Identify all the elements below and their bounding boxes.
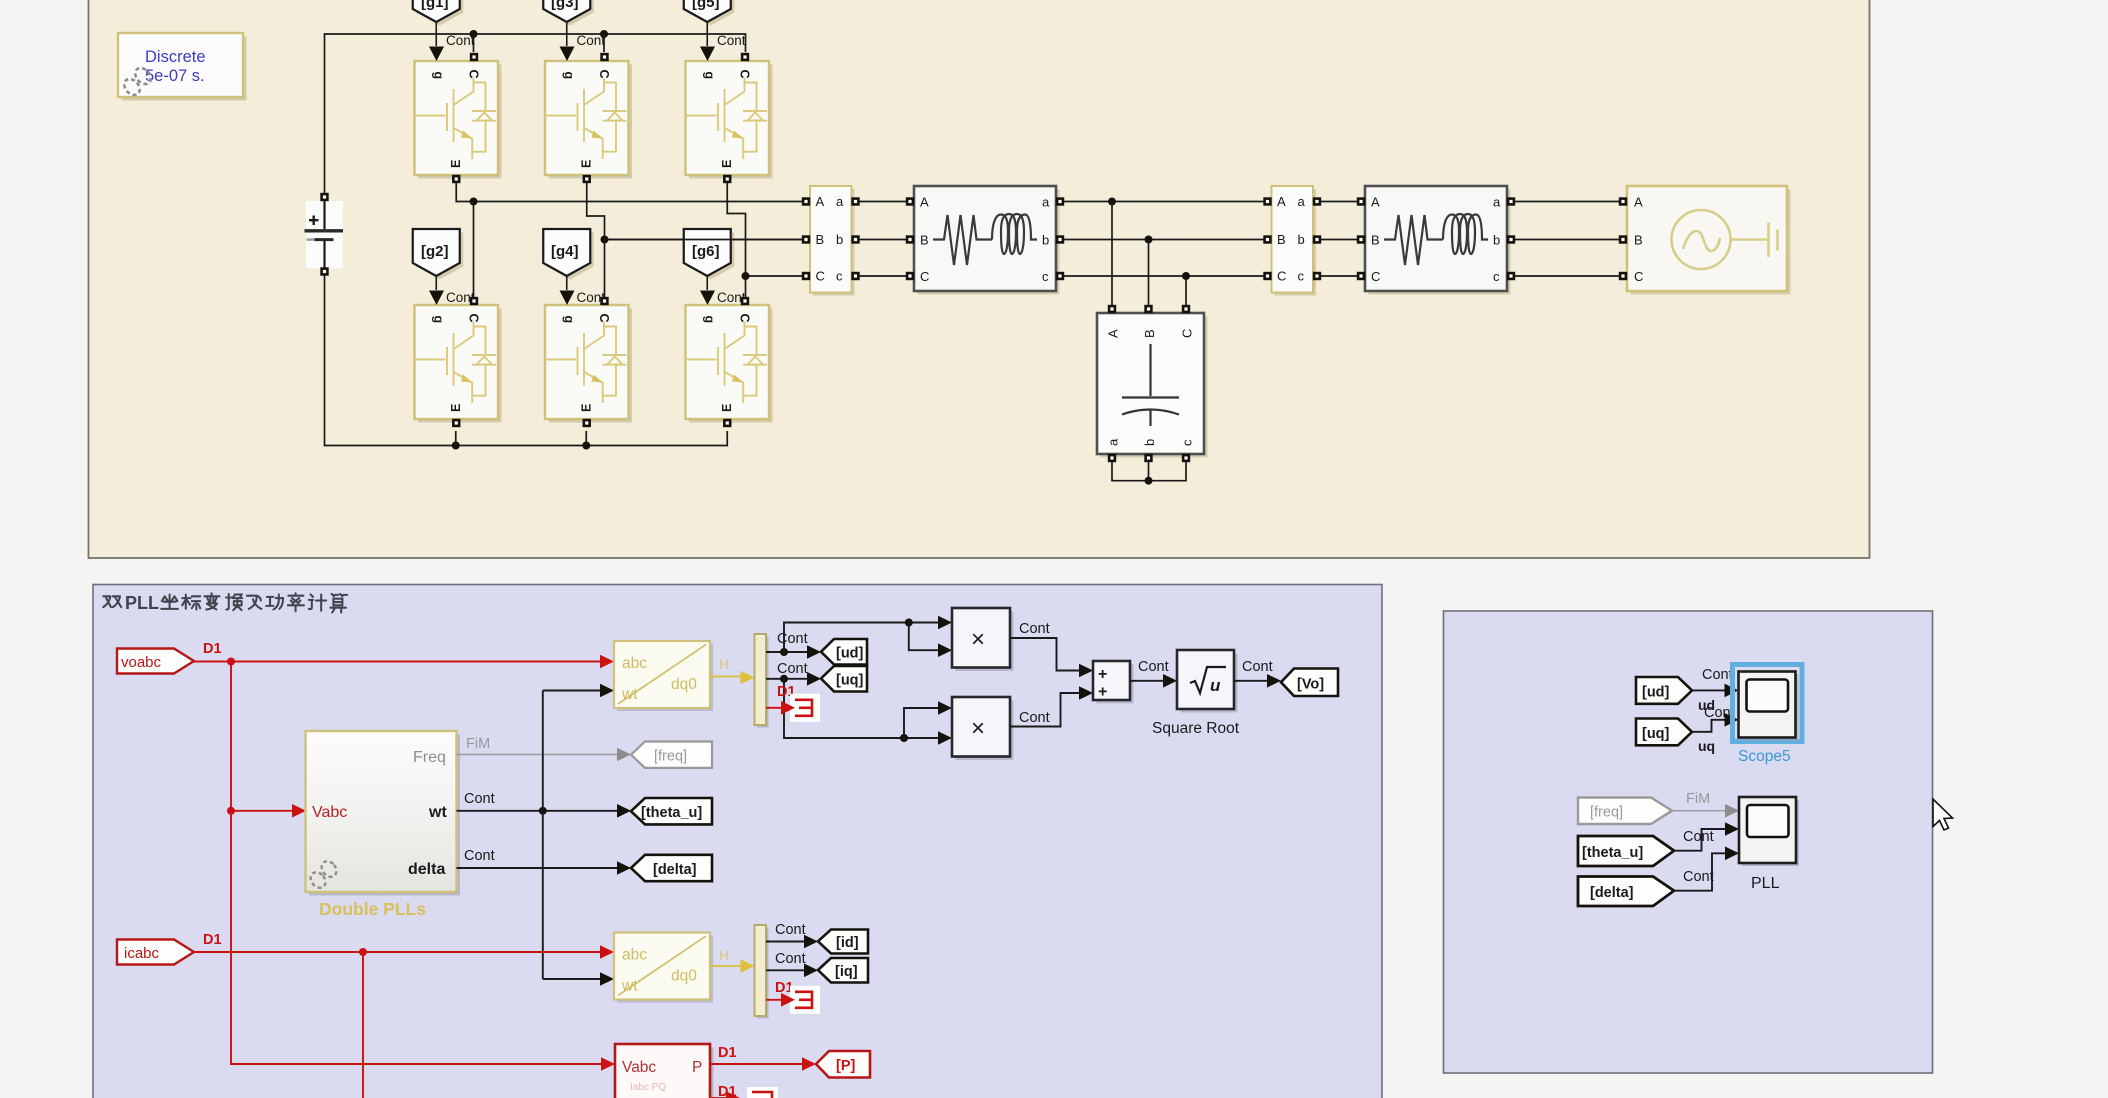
svg-text:[uq]: [uq]	[836, 673, 864, 689]
svg-text:Scope5: Scope5	[1738, 748, 1791, 765]
svg-text:×: ×	[971, 715, 985, 742]
svg-text:[delta]: [delta]	[653, 862, 697, 878]
svg-text:Cont: Cont	[577, 33, 606, 48]
wire ud to multiplier (square)	[784, 623, 939, 653]
node Vabc branch	[227, 807, 235, 815]
svg-text:[ud]: [ud]	[836, 646, 864, 662]
svg-text:Double PLLs: Double PLLs	[319, 899, 426, 919]
svg-text:c: c	[1180, 439, 1195, 446]
wire H2 to demux2	[710, 965, 741, 967]
phase B jog wire from Q3 E	[587, 183, 810, 297]
wire adder to sqrt	[1130, 680, 1164, 682]
RL branch 1	[906, 186, 1064, 295]
goto tag [P]	[816, 1051, 870, 1078]
wire mult1 to adder	[1010, 638, 1080, 671]
svg-text:[freq]: [freq]	[654, 749, 687, 765]
multiplier 2	[952, 697, 1014, 760]
svg-text:[P]: [P]	[836, 1058, 856, 1074]
measurement block 2 (Aa Bb Cc)	[1263, 186, 1321, 296]
From tag icabc	[117, 940, 194, 965]
svg-text:Cont: Cont	[464, 791, 495, 807]
wire uq out	[766, 678, 808, 680]
wire delta to PLL	[1674, 853, 1725, 890]
goto tag [id]	[818, 930, 868, 954]
wire icabc down	[362, 952, 364, 1098]
From tag [theta_u]	[1578, 836, 1674, 866]
node cap neutral	[1145, 477, 1153, 485]
svg-text:Vabc: Vabc	[622, 1059, 656, 1076]
PLL scope block	[1739, 797, 1799, 866]
wire delta to [delta]	[457, 867, 618, 869]
svg-text:[delta]: [delta]	[1590, 885, 1634, 901]
svg-text:Freq: Freq	[413, 749, 446, 766]
wire P out to [P]	[710, 1063, 803, 1065]
powergui Discrete block	[118, 33, 247, 101]
three-phase capacitor bank block	[1097, 305, 1208, 462]
率	[288, 593, 304, 611]
From tag [freq] (scopes)	[1578, 798, 1672, 825]
svg-text:Cont: Cont	[446, 33, 475, 48]
wire id out	[766, 941, 804, 943]
坐	[161, 595, 178, 609]
phase C jog wire from Q5 E	[727, 183, 810, 297]
svg-text:Cont: Cont	[1138, 659, 1169, 675]
svg-text:H: H	[719, 948, 729, 963]
svg-text:[iq]: [iq]	[835, 964, 858, 980]
svg-text:[g2]: [g2]	[421, 243, 449, 260]
及	[247, 596, 261, 609]
Square Root block	[1177, 650, 1238, 713]
svg-text:Vabc: Vabc	[312, 804, 347, 821]
goto tag [iq]	[818, 958, 868, 983]
wire phase B over g6 tag	[605, 239, 811, 241]
IGBT Q1	[415, 47, 502, 184]
svg-text:uq: uq	[1698, 738, 1715, 754]
node cap tap A	[1108, 198, 1116, 206]
wire: C-port drops from top rail	[474, 34, 605, 52]
svg-text:Discrete: Discrete	[145, 48, 206, 66]
From tag [uq]	[1636, 719, 1692, 746]
IGBT Q5	[686, 47, 773, 184]
wire voabc red into abc1 arrow	[600, 655, 614, 669]
wire uq to multiplier 2	[784, 679, 939, 738]
svg-text:[ud]: [ud]	[1642, 685, 1670, 701]
svg-text:A: A	[1634, 195, 1643, 210]
demux 1	[755, 634, 769, 728]
svg-text:PLL: PLL	[125, 593, 159, 613]
demux 2	[755, 925, 769, 1019]
svg-text:[id]: [id]	[836, 935, 859, 951]
wire voabc down branch	[231, 662, 601, 1065]
svg-text:b: b	[1142, 439, 1157, 446]
svg-text:Cont: Cont	[1683, 829, 1714, 845]
svg-text:Cont: Cont	[777, 661, 808, 677]
wire red stub Q (cut)	[710, 1097, 726, 1098]
wire iq out	[766, 969, 804, 971]
svg-text:A: A	[1106, 329, 1121, 338]
计	[309, 595, 326, 611]
IGBT Q4	[545, 291, 632, 428]
换	[226, 594, 242, 610]
node icabc branch	[359, 948, 367, 956]
node: bottom rail junction E of Q4	[582, 442, 590, 450]
wire phase A drop to Q2 C	[473, 202, 475, 298]
measurement block 1 (Aa Bb Cc)	[802, 186, 860, 296]
mouse cursor	[1933, 799, 1953, 830]
双	[103, 596, 121, 607]
multiplier 1	[952, 608, 1014, 671]
svg-text:voabc: voabc	[121, 654, 162, 671]
From tag [g1] (cut at top)	[413, 0, 464, 46]
node phase B	[601, 236, 609, 244]
svg-text:FiM: FiM	[466, 736, 490, 752]
wire cap bottom shorting	[1112, 462, 1186, 481]
goto tag [delta]	[631, 855, 712, 881]
goto tag [Vo]	[1281, 669, 1338, 697]
abc to dq0 block 2	[614, 933, 713, 1003]
svg-text:Cont: Cont	[717, 33, 746, 48]
wire ud to scope	[1692, 689, 1725, 691]
goto tag [uq]	[821, 666, 867, 692]
svg-text:[g1]: [g1]	[421, 0, 449, 11]
node phase A	[470, 198, 478, 206]
wire freq to PLL	[1672, 810, 1725, 812]
DC voltage source battery	[305, 193, 344, 276]
node: top rail junction phase B	[600, 30, 608, 38]
wire cap drops	[1112, 202, 1186, 306]
node phase C	[742, 272, 750, 280]
svg-text:Cont: Cont	[464, 848, 495, 864]
wire branch to Double PLLs	[231, 810, 292, 812]
From tag [g4]	[543, 229, 594, 290]
node: bottom rail junction E of Q2	[452, 442, 460, 450]
Double PLLs block	[306, 731, 461, 896]
svg-text:C: C	[1180, 329, 1195, 338]
From tag voabc	[117, 649, 194, 674]
Scope5 block	[1739, 672, 1799, 741]
wire theta_u to PLL	[1674, 829, 1725, 851]
From tag [g2]	[413, 229, 464, 290]
svg-text:icabc: icabc	[124, 945, 160, 962]
three-phase AC voltage source	[1619, 186, 1791, 295]
变	[204, 593, 219, 609]
svg-text:D1: D1	[718, 1045, 737, 1061]
wire uq to scope	[1692, 720, 1725, 732]
adder block	[1093, 661, 1134, 704]
svg-text:delta: delta	[408, 861, 445, 878]
From tag [delta]	[1578, 877, 1674, 907]
svg-text:[g5]: [g5]	[692, 0, 720, 11]
wire red stub demux2	[766, 999, 782, 1001]
功	[266, 595, 283, 610]
svg-text:FiM: FiM	[1686, 791, 1710, 807]
svg-text:Cont: Cont	[1683, 869, 1714, 885]
wire H1 to demux1	[710, 676, 741, 678]
wire red stub demux1	[766, 707, 782, 709]
goto tag [ud]	[821, 639, 867, 665]
panel: inverter power stage area	[89, 0, 1870, 558]
RL branch 2	[1357, 186, 1515, 295]
panel title: 双PLL坐标变换及功率计算 (drawn strokes)	[103, 593, 347, 613]
wire Freq to [freq] tag	[457, 754, 618, 756]
wire icabc to abc2	[194, 951, 601, 953]
panel: scopes	[1444, 611, 1933, 1073]
panel: dual PLL coordinate transform & power calc	[93, 585, 1382, 1098]
svg-text:a: a	[1106, 438, 1121, 446]
node ud branch	[780, 648, 788, 656]
wire rows meas1 to RL1	[852, 202, 915, 277]
node cap tap C	[1182, 272, 1190, 280]
svg-text:B: B	[1634, 233, 1643, 248]
svg-text:u: u	[1210, 676, 1221, 695]
wire: DC bus bottom rail	[325, 276, 728, 446]
wire voabc to abc1	[194, 661, 601, 663]
wire: DC bus top rail	[325, 34, 746, 193]
svg-text:[g4]: [g4]	[551, 243, 579, 260]
Scope5 selection highlight	[1733, 665, 1803, 742]
From tag [ud]	[1636, 677, 1692, 704]
svg-text:5e-07 s.: 5e-07 s.	[145, 67, 205, 85]
wire sqrt to Vo	[1234, 680, 1268, 682]
wire rows meas2 to RL2	[1313, 202, 1365, 277]
svg-text:wt: wt	[428, 804, 447, 821]
svg-text:[theta_u]: [theta_u]	[641, 805, 702, 821]
svg-text:[g3]: [g3]	[551, 0, 579, 11]
svg-text:[Vo]: [Vo]	[1297, 677, 1324, 693]
svg-text:P: P	[692, 1059, 702, 1076]
svg-text:Cont: Cont	[1702, 667, 1733, 683]
svg-text:×: ×	[971, 626, 985, 653]
goto tag [freq]	[631, 742, 712, 768]
node uq branch	[780, 675, 788, 683]
wire wt to [theta_u]	[457, 810, 618, 812]
wire rows RL2 to AC source	[1507, 202, 1627, 277]
goto tag [theta_u]	[631, 798, 712, 824]
svg-text:[theta_u]: [theta_u]	[1582, 845, 1643, 861]
算	[330, 594, 347, 613]
node voabc branch	[227, 658, 235, 666]
svg-text:Cont: Cont	[775, 951, 806, 967]
svg-text:Cont: Cont	[1242, 659, 1273, 675]
svg-text:D1: D1	[203, 641, 222, 657]
node wt branch	[539, 807, 547, 815]
svg-text:+: +	[1098, 684, 1107, 701]
svg-text:PLL: PLL	[1751, 875, 1780, 892]
From tag [g3] (cut at top)	[543, 0, 594, 46]
wire mult2 to adder	[1010, 693, 1080, 727]
IGBT Q6	[686, 291, 773, 428]
svg-text:[uq]: [uq]	[1642, 726, 1670, 742]
svg-text:Cont: Cont	[777, 631, 808, 647]
标	[182, 595, 200, 610]
svg-text:Square Root: Square Root	[1152, 720, 1240, 737]
wire rows RL1 to meas2	[1056, 202, 1272, 277]
svg-text:D1: D1	[203, 932, 222, 948]
svg-text:Iabc PQ: Iabc PQ	[630, 1082, 666, 1093]
IGBT Q3	[545, 47, 632, 184]
IGBT Q2	[415, 291, 502, 428]
From tag [g6]	[684, 229, 735, 290]
abc to dq0 block 1	[614, 641, 713, 711]
node cap tap B	[1145, 236, 1153, 244]
svg-text:[freq]: [freq]	[1590, 805, 1623, 821]
svg-text:H: H	[719, 657, 729, 672]
svg-text:Cont: Cont	[1019, 710, 1050, 726]
wire ud out	[766, 651, 808, 653]
wire wt vertical to both dq0 blocks	[543, 691, 601, 980]
svg-text:C: C	[1634, 269, 1643, 284]
power measurement block Vabc-P	[615, 1044, 714, 1098]
node: top rail junction phase A	[470, 30, 478, 38]
svg-text:[g6]: [g6]	[692, 243, 720, 260]
From tag [g5] (cut at top)	[684, 0, 735, 46]
svg-text:Cont: Cont	[775, 922, 806, 938]
svg-text:B: B	[1142, 329, 1157, 338]
svg-text:+: +	[1098, 666, 1107, 683]
wire: E-port drops to bottom rail	[456, 431, 587, 446]
svg-text:Cont: Cont	[1019, 621, 1050, 637]
phase A jog wire from Q1 E	[456, 183, 810, 202]
